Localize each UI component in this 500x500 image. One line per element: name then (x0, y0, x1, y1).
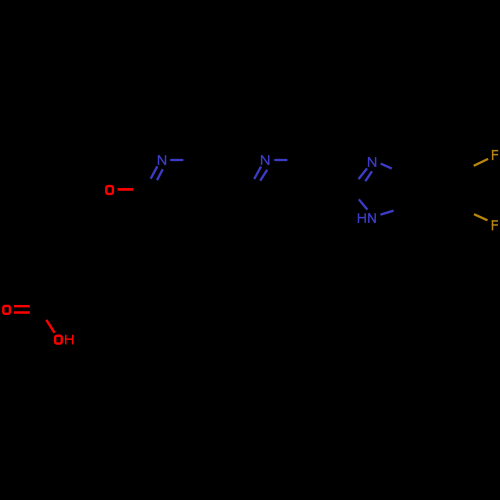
H of OH label (66, 335, 73, 345)
pyridine ring 2 N label (262, 155, 269, 165)
N of HN label (benzimidazole) (369, 213, 375, 223)
ring2 N=C2 double bond (blue halves) (254, 167, 267, 181)
C=O double bond (red halves) (14, 306, 30, 312)
ether O - pyridine C2 bond (red half) (118, 188, 134, 191)
ether O label (106, 186, 113, 194)
C6-F2 bond (gold half) (474, 214, 488, 220)
N1(H)-C7a bond benzimidazole (blue half) (380, 211, 393, 215)
fluorine F1 label (top) (492, 150, 498, 160)
ring1 N-C6 bond (blue half) (170, 159, 183, 161)
H of HN label (benzimidazole) (359, 213, 366, 223)
fluorine F2 label (bottom) (492, 220, 498, 230)
N3-C3a bond (blue half) (381, 164, 392, 169)
benzimidazole N3 label (369, 157, 376, 167)
ring1 N=C2 double bond (blue halves) (151, 166, 163, 180)
ring2 N-C6 bond (blue half) (274, 159, 287, 161)
carbonyl O label of carboxylic acid (3, 306, 10, 314)
C5-F1 bond (gold half) (474, 159, 488, 166)
O of OH label (55, 336, 62, 344)
pyridine ring 1 N label (159, 155, 166, 165)
N1(H)-C2 bond benzimidazole (blue half) (359, 199, 368, 209)
N3=C2 double bond (blue halves) (359, 168, 373, 181)
C-OH bond (red half) (46, 320, 54, 333)
